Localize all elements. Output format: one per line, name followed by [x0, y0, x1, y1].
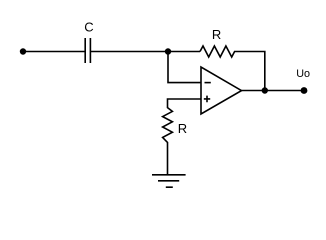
svg-text:R: R: [212, 27, 221, 42]
svg-text:R: R: [178, 121, 187, 136]
svg-text:C: C: [84, 20, 93, 35]
svg-text:Uo: Uo: [296, 68, 310, 80]
